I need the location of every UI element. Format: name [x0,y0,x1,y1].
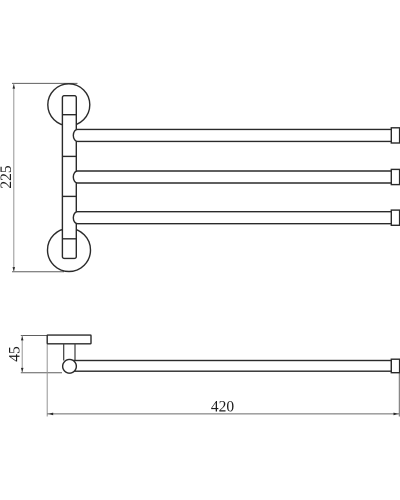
swivel arm 2 [73,171,391,183]
arm 1 end cap [391,128,399,143]
dimension 225 line [13,83,15,271]
pivot stem right line [74,344,76,361]
svg-text:420: 420 [211,398,235,415]
bottom mount circle [48,229,91,272]
vertical post [62,96,76,259]
dimension 420 right extension line [398,373,400,417]
top mount circle [48,84,90,126]
swivel arm 1 [73,129,391,141]
svg-text:225: 225 [0,165,15,189]
arm 3 end cap [391,210,399,225]
dimension 45 arrow up [21,336,24,340]
pivot circle (side view) [63,359,77,373]
pivot stem left line [63,344,65,361]
dimension 45 line [21,336,23,373]
dimension 45 arrow down [21,368,24,372]
svg-text:45: 45 [7,346,24,362]
post joint line 3 [62,195,76,197]
post joint line 2 [62,155,76,157]
dimension 420 left extension line [46,344,48,417]
post joint line 1 [62,114,76,116]
post joint line 4 [62,238,76,240]
dimension 225 extension line bottom [12,271,64,273]
towel bar (side view) [70,361,392,372]
dimension 225 extension line top [12,82,78,84]
dimension 225 arrow up [13,84,16,88]
dimension 420 arrow right [394,413,399,416]
bar end cap (side view) [391,359,399,373]
dimension 45 extension line top [21,335,48,337]
dimension 225 arrow down [13,267,16,271]
wall plate (side view) [47,335,91,344]
dimension 420 line [47,413,399,415]
arm 2 end cap [391,169,399,184]
dimension 45 extension line bottom [21,372,62,374]
swivel arm 3 [73,212,391,224]
dimension 420 arrow left [48,413,53,416]
